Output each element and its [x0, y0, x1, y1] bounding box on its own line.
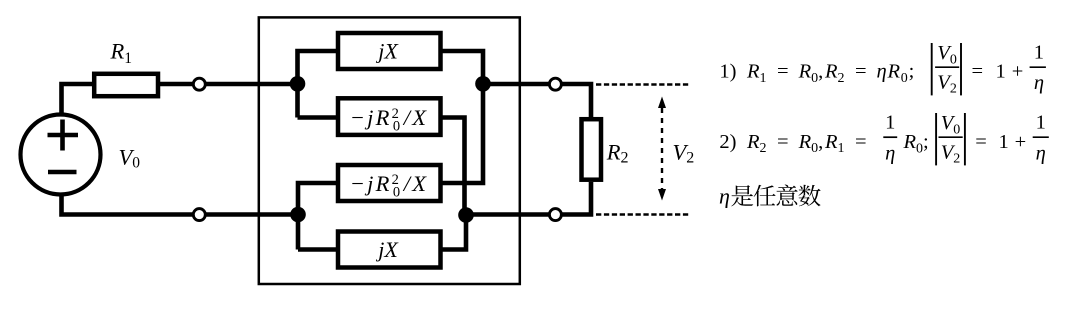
svg-text:=: = [855, 61, 867, 83]
svg-text:η: η [1034, 72, 1044, 94]
resistor R1 [94, 74, 158, 96]
CJK char 意 [777, 185, 798, 206]
svg-text:R0,: R0, [798, 131, 824, 156]
equation 1 fraction 1/eta [1030, 41, 1046, 94]
CJK char 数 [799, 185, 821, 207]
CJK char 任 [754, 185, 776, 207]
node A junction [290, 76, 306, 92]
impedance jX1 box [338, 33, 441, 69]
svg-text:=: = [855, 131, 867, 153]
node D junction [458, 207, 474, 223]
wire R1 to terminal [158, 82, 193, 87]
wire node D to output terminal [466, 212, 549, 217]
wire terminal to node A [206, 82, 298, 87]
impedance jX2 box [338, 232, 441, 268]
equation 2 text [719, 131, 866, 156]
lattice network outer box [259, 17, 520, 284]
node C junction [475, 76, 491, 92]
impedance Z3 box [338, 165, 441, 201]
terminal output top [549, 78, 561, 90]
resistor R2 [582, 119, 602, 180]
svg-text:+: + [1012, 61, 1024, 83]
wire jX1 to node C [441, 51, 484, 83]
wire Z2 to node D (cross arm) [441, 118, 465, 216]
svg-text:+: + [1015, 131, 1027, 153]
equation 1 abs fraction V0/V2 [932, 42, 961, 96]
equation 2 fraction 1/eta inline [883, 111, 897, 164]
svg-text:1): 1) [719, 61, 736, 83]
wire output bottom to R2 [562, 182, 591, 215]
impedance Z2 box [338, 98, 441, 135]
voltage source V0 [21, 115, 101, 195]
svg-text:=: = [777, 131, 789, 153]
svg-text:R0;: R0; [903, 131, 929, 157]
svg-text:=: = [975, 131, 987, 153]
equation 1 text [719, 61, 915, 86]
terminal input bottom [193, 209, 205, 221]
equation 2 fraction 1/eta rhs [1033, 111, 1049, 164]
wire node C to output terminal [483, 82, 549, 87]
wire node C down to Z3 (cross arm) [441, 83, 484, 183]
CJK char 是 [731, 185, 753, 206]
svg-text:1: 1 [885, 111, 895, 133]
wire terminal to node B [206, 212, 298, 217]
svg-text:1: 1 [999, 131, 1009, 153]
wire node A down to Z2 [298, 115, 339, 120]
equation 2 abs fraction V0/V2 [936, 112, 965, 166]
svg-text:η: η [1036, 142, 1046, 164]
svg-text:ηR0;: ηR0; [877, 61, 916, 86]
wire output top to R2 [562, 84, 591, 119]
wire node A up to jX1 [298, 51, 339, 118]
svg-text:R0,: R0, [798, 61, 824, 86]
terminal input top [193, 78, 205, 90]
svg-text:1: 1 [1034, 41, 1044, 63]
wire node B down to jX2 [298, 247, 338, 252]
wire source bottom down [62, 194, 193, 214]
svg-text:=: = [777, 61, 789, 83]
svg-text:1: 1 [1036, 111, 1046, 133]
svg-text:1: 1 [996, 61, 1006, 83]
dashed line top [596, 83, 689, 85]
node B junction [290, 207, 306, 223]
V2 dashed arrow [658, 97, 666, 201]
wire jX2 to node D [441, 215, 467, 250]
svg-text:jX: jX [375, 39, 399, 64]
svg-text:η: η [885, 142, 895, 164]
svg-text:η: η [719, 184, 730, 209]
terminal output bottom [549, 209, 561, 221]
wire source top to R1 [62, 84, 95, 115]
svg-text:jX: jX [375, 237, 399, 262]
svg-text:=: = [972, 61, 984, 83]
wire node B up to Z3 [298, 183, 338, 250]
svg-text:2): 2) [719, 131, 736, 153]
dashed line bottom [596, 213, 689, 215]
